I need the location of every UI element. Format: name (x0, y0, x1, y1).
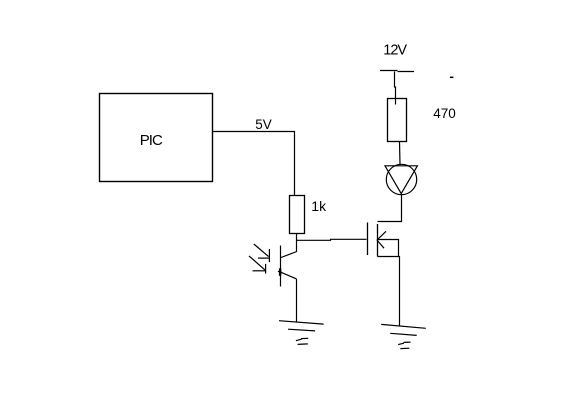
label 1k (311, 198, 327, 214)
label 12V (383, 42, 407, 58)
phototransistor Q1 base bar (280, 246, 282, 287)
MOSFET Q2 source (378, 257, 400, 327)
svg-text:PIC: PIC (140, 132, 163, 149)
LED D1 triangle (385, 166, 417, 194)
svg-text:5V: 5V (255, 117, 272, 132)
minus mark (450, 76, 453, 78)
label 5V (255, 117, 272, 132)
svg-text:470: 470 (433, 106, 456, 121)
wire gate: node A to MOSFET gate (297, 239, 367, 240)
svg-text:1k: 1k (311, 198, 327, 214)
wire 5V: PIC output to node above R1 (213, 132, 295, 196)
resistor R2 470 (388, 99, 407, 142)
MOSFET Q2 drain (378, 194, 402, 222)
svg-text:12V: 12V (383, 42, 407, 58)
label 470 (433, 106, 456, 121)
LED D1 circle (386, 164, 416, 194)
wire rail to R2 top (395, 72, 396, 105)
12V supply rail (380, 71, 414, 72)
phototransistor Q1 emitter (281, 272, 296, 279)
MOSFET Q2 channel bar (377, 224, 379, 257)
phototransistor Q1 collector (281, 252, 297, 258)
ground GND1 (under Q1 emitter) (279, 321, 324, 345)
light arrow 1 into Q1 (254, 244, 270, 262)
PIC block U1 (100, 94, 213, 182)
phototransistor Q1 emitter arrowhead (278, 268, 282, 276)
MOSFET Q2 body arrow (377, 231, 399, 256)
MOSFET Q2 gate bar (367, 223, 369, 256)
resistor R1 1k (290, 196, 305, 234)
wire Q1 emitter to ground (296, 279, 298, 322)
label PIC (140, 132, 163, 149)
wire R2 bottom to LED anode (399, 142, 402, 165)
wire R1 bottom to collector node A (296, 234, 298, 252)
ground GND2 (under Q2 source) (381, 324, 426, 348)
light arrow 2 into Q1 (249, 256, 266, 274)
